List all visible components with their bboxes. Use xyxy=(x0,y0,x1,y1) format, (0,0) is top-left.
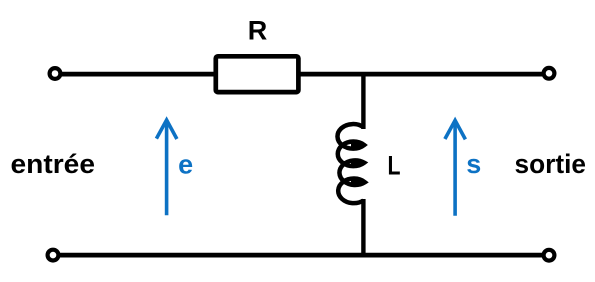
input voltage arrow e xyxy=(156,120,177,215)
inductor L1 coil cusp bar 1 xyxy=(351,143,364,148)
svg-text:s: s xyxy=(466,149,481,179)
wire bottom rail xyxy=(53,253,549,258)
node output top terminal xyxy=(544,68,555,79)
inductor L1 coil xyxy=(337,124,364,203)
svg-text:e: e xyxy=(178,150,193,180)
node output bottom terminal xyxy=(544,250,555,261)
svg-text:L: L xyxy=(388,151,401,181)
resistor R1 body xyxy=(216,56,299,92)
node input top terminal xyxy=(50,68,61,79)
wire inductor vertical bottom segment xyxy=(361,199,365,255)
inductor L1 coil cusp bar 2 xyxy=(351,160,364,165)
inductor L1 coil cusp bar 3 xyxy=(351,180,364,185)
wire top rail xyxy=(55,72,549,77)
svg-text:sortie: sortie xyxy=(515,149,587,179)
svg-text:R: R xyxy=(248,16,268,46)
svg-text:entrée: entrée xyxy=(11,149,96,179)
wire inductor vertical top segment xyxy=(361,72,365,129)
output voltage arrow s xyxy=(445,120,466,215)
node input bottom terminal xyxy=(48,250,59,261)
